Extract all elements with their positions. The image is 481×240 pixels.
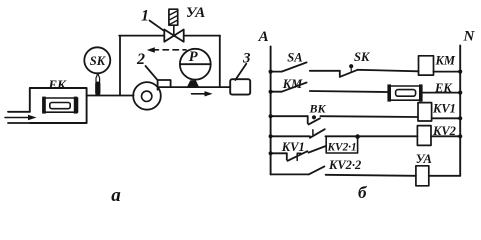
junction dot rail A row3: [269, 114, 273, 118]
junction dot rail A row4: [269, 134, 273, 138]
row1 wire coil KM to rail N: [434, 71, 461, 73]
coil YA: [416, 166, 429, 186]
svg-text:1: 1: [141, 8, 149, 25]
heater EK ladder inner rect: [396, 90, 416, 97]
junction dot row4 over KV2.1 box: [355, 134, 360, 139]
svg-text:KM: KM: [435, 54, 456, 68]
rail A: [270, 46, 272, 174]
pressure gauge P chord: [180, 63, 211, 65]
junction dot rail A row5: [269, 151, 273, 155]
svg-text:УА: УА: [416, 152, 432, 166]
junction dot rail N row3: [458, 116, 462, 120]
bypass top line left segment: [119, 35, 164, 37]
heater element EK (outer rect): [43, 98, 78, 112]
row4 contact blade: [310, 129, 325, 138]
row1 wire middle: [310, 70, 340, 72]
svg-text:2: 2: [136, 51, 145, 68]
fan casing circle: [133, 82, 161, 110]
row6 wire coil YA to rail N: [429, 175, 460, 177]
label box KV2.1: [326, 137, 357, 153]
svg-text:BK: BK: [309, 102, 327, 116]
rail N: [459, 46, 461, 176]
contact SK dot: [349, 64, 353, 68]
row3 wire from rail A: [271, 115, 308, 117]
svg-text:УА: УА: [186, 5, 205, 21]
contact KV2.1 blade: [308, 146, 325, 153]
svg-text:KV2: KV2: [432, 124, 456, 138]
heater element EK left end bar: [42, 97, 46, 114]
junction dot rail N row1: [458, 70, 462, 74]
svg-text:SK: SK: [354, 50, 371, 64]
unit 3 box: [230, 79, 250, 94]
row4 contact stop tick: [312, 130, 314, 135]
junction dot rail A row1: [269, 70, 273, 74]
svg-text:EK: EK: [48, 77, 68, 92]
svg-text:KM: KM: [282, 77, 303, 91]
bypass top line right segment: [184, 35, 220, 37]
coil KM: [419, 56, 434, 75]
dashed impulse line: [153, 49, 186, 51]
contact SA blade: [282, 62, 307, 71]
row4 wire coil KV2 to rail N: [431, 135, 460, 137]
svg-text:SK: SK: [90, 54, 107, 68]
duct inlet top line: [8, 111, 30, 113]
svg-text:а: а: [111, 185, 121, 206]
contact KV1 step: [286, 153, 288, 159]
duct inlet flow arrow: [5, 115, 37, 121]
row3 wire to coil KV1: [320, 115, 418, 118]
pipe from EK box to fan: [87, 95, 134, 97]
contact KM blade: [282, 83, 307, 92]
contact BK step: [307, 116, 309, 123]
actuator YA box: [169, 9, 178, 25]
junction dot rail A row2: [269, 90, 273, 94]
heater EK ladder right end bar: [419, 84, 423, 101]
svg-text:SA: SA: [287, 51, 302, 65]
leader line of label 2: [146, 66, 158, 80]
flow arrow on outlet pipe: [192, 91, 213, 96]
valve YA stem: [173, 25, 175, 34]
contact BK blade: [309, 118, 320, 124]
valve YA bowtie right triangle: [174, 30, 184, 42]
heater element EK inner rect: [50, 103, 70, 109]
row3 wire coil KV1 to rail N: [432, 117, 461, 119]
row2 wire middle: [310, 91, 388, 92]
bypass left riser: [119, 36, 121, 96]
valve YA bowtie left triangle: [164, 30, 174, 42]
heater EK ladder outer rect: [389, 86, 421, 100]
heater EK ladder left end bar: [387, 84, 391, 101]
row1 wire to coil KM: [358, 70, 419, 72]
row1 wire from rail A: [271, 71, 282, 73]
contact SK step: [339, 71, 341, 77]
row4 wire from rail A: [271, 135, 310, 137]
heater element EK right end bar: [74, 97, 78, 114]
svg-text:б: б: [358, 183, 368, 202]
contact SK dot stem: [350, 68, 352, 72]
row2 wire from rail A: [271, 91, 282, 93]
sensor SK bulb stem: [96, 73, 100, 95]
contact SK blade: [341, 70, 358, 77]
fan outlet duct: [158, 80, 171, 90]
coil KV2: [417, 126, 431, 146]
row6 wire from rail A corner: [271, 173, 309, 175]
contact KV1 stop tick: [297, 153, 301, 160]
fan hub circle: [142, 91, 152, 101]
svg-text:A: A: [258, 29, 269, 45]
row6 wire to coil YA: [326, 175, 416, 176]
row5 wire from rail A: [271, 152, 287, 154]
bypass right riser: [219, 36, 221, 88]
svg-text:KV1: KV1: [281, 140, 305, 154]
svg-text:KV1: KV1: [432, 102, 456, 116]
contact KV2.2 blade: [309, 166, 325, 174]
svg-text:EK: EK: [434, 81, 453, 95]
pressure gauge connector blob: [187, 80, 199, 87]
actuator YA zigzag: [170, 11, 177, 24]
duct inlet bottom line: [8, 122, 30, 124]
air-duct box of heater EK: [30, 88, 87, 123]
svg-text:N: N: [463, 29, 476, 45]
svg-text:3: 3: [242, 50, 251, 66]
contact BK dot: [312, 115, 316, 119]
impulse line left arrowhead: [147, 47, 155, 52]
svg-text:KV2·2: KV2·2: [328, 158, 361, 172]
pressure gauge P circle: [180, 49, 211, 80]
contact KV1 blade: [288, 151, 308, 161]
junction dot rail N row4: [458, 134, 462, 138]
sensor SK bulb body: [95, 82, 100, 96]
junction dot rail N row2: [458, 91, 462, 95]
row2 wire to rail N: [423, 92, 461, 94]
sensor SK circle: [84, 47, 110, 73]
leader line of label 1: [150, 21, 165, 31]
leader line of label 3: [235, 64, 246, 80]
coil KV1: [418, 103, 432, 121]
svg-text:Р: Р: [189, 49, 198, 65]
row4 wire to coil KV2: [325, 135, 417, 137]
outlet pipe to unit 3: [158, 86, 230, 88]
svg-text:KV2·1: KV2·1: [327, 142, 357, 154]
